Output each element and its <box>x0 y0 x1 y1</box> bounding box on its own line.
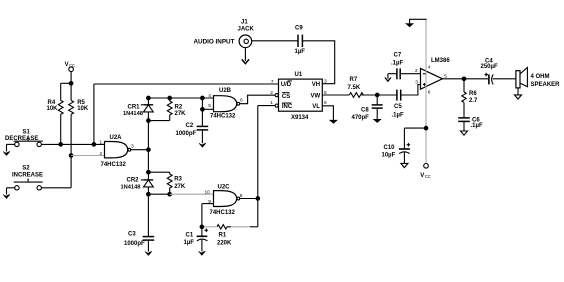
svg-text:SPEAKER: SPEAKER <box>531 82 561 88</box>
svg-text:4: 4 <box>428 64 431 70</box>
wire U2A output to node <box>131 148 151 152</box>
svg-text:CR2: CR2 <box>127 178 140 184</box>
svg-text:C2: C2 <box>186 123 194 129</box>
NAND gate U2A <box>100 135 135 168</box>
svg-text:S2: S2 <box>22 165 30 171</box>
ground (C2) <box>199 143 206 147</box>
svg-text:U2A: U2A <box>110 135 123 141</box>
svg-text:VL: VL <box>312 104 320 110</box>
Vcc symbol (left supply) <box>65 62 75 85</box>
svg-text:R6: R6 <box>469 91 477 97</box>
Vcc terminal (LM386 pin6 bottom) <box>420 164 430 180</box>
svg-text:7.5K: 7.5K <box>348 85 361 91</box>
capacitor C9 <box>295 25 306 55</box>
connector J1 jack <box>194 19 299 47</box>
ground (J1) <box>242 48 249 64</box>
svg-text:VH: VH <box>312 82 320 88</box>
ground (S2) <box>3 188 15 199</box>
svg-text:2: 2 <box>270 90 273 96</box>
capacitor C2 <box>176 123 209 143</box>
op-amp U3 LM386 <box>415 58 450 95</box>
wire S2 to R5/U2A pin2 node <box>41 154 72 188</box>
IC U1 X9134 <box>270 72 327 121</box>
NAND gate U2C <box>205 185 243 216</box>
svg-text:C7: C7 <box>394 53 402 59</box>
wire U1 VH to C9 <box>302 41 334 84</box>
wire LM386 output <box>442 77 488 81</box>
svg-text:C10: C10 <box>384 145 396 151</box>
svg-text:7: 7 <box>271 79 274 85</box>
ground (C10, open) <box>401 163 408 167</box>
svg-text:U1: U1 <box>295 72 303 78</box>
svg-text:10K: 10K <box>77 106 89 112</box>
svg-text:.1µF: .1µF <box>471 123 483 129</box>
capacitor C10 (electrolytic) <box>382 126 428 163</box>
node C2 / U2B pin5 branch <box>201 98 214 126</box>
svg-text:10µF: 10µF <box>382 152 396 158</box>
svg-text:6: 6 <box>428 89 431 95</box>
capacitor C8 <box>352 93 383 121</box>
NAND gate U2B <box>208 88 243 120</box>
svg-text:3: 3 <box>131 143 134 149</box>
switch S1 DECREASE <box>5 130 43 147</box>
svg-text:1: 1 <box>100 140 103 146</box>
svg-text:74HC132: 74HC132 <box>210 210 236 216</box>
svg-text:C8: C8 <box>361 108 369 114</box>
svg-text:1000pF: 1000pF <box>176 131 197 137</box>
resistor R6 <box>462 79 478 118</box>
svg-text:1N4148: 1N4148 <box>123 111 143 117</box>
svg-text:4 OHM: 4 OHM <box>531 74 550 80</box>
resistor R4 <box>47 83 64 144</box>
ground (speaker, open) <box>515 88 522 99</box>
svg-text:2: 2 <box>100 151 103 157</box>
svg-text:LM386: LM386 <box>431 58 450 64</box>
svg-text:470pF: 470pF <box>352 115 370 121</box>
svg-text:.1µF: .1µF <box>392 112 404 118</box>
wire U2B output to U1 CS <box>240 95 276 104</box>
svg-text:10: 10 <box>205 189 211 195</box>
svg-text:27K: 27K <box>174 184 186 190</box>
ground (C6, open) <box>461 131 468 135</box>
switch S2 INCREASE <box>12 165 43 190</box>
ground (S1) <box>3 144 15 155</box>
svg-text:JACK: JACK <box>238 26 255 32</box>
svg-text:C1: C1 <box>186 233 194 239</box>
ground (C7) <box>385 74 391 82</box>
svg-text:5: 5 <box>208 103 211 109</box>
svg-text:CC: CC <box>425 174 431 179</box>
capacitor C6 <box>458 117 483 131</box>
wire S1 to U2A pin1 <box>41 143 104 147</box>
ground arrow (LM386 pin4 top) <box>406 19 427 27</box>
capacitor C5 <box>392 90 404 119</box>
svg-text:R1: R1 <box>219 233 227 239</box>
capacitor C3 <box>124 232 154 252</box>
power rail LM386 pin4/pin6 (gray) <box>425 19 427 163</box>
svg-text:U2B: U2B <box>219 88 232 94</box>
resistor R1 <box>200 225 258 247</box>
capacitor C7 <box>388 53 421 80</box>
svg-text:1µF: 1µF <box>295 49 306 55</box>
svg-text:250µF: 250µF <box>481 64 498 70</box>
wire CR1 bottom to R2 bottom <box>147 119 170 123</box>
wire rail CR1/R2 tops to U2B pin4 <box>147 96 214 100</box>
svg-text:INC: INC <box>282 104 293 110</box>
resistor R3 <box>167 172 186 194</box>
wire Vcc node to R4 top <box>61 82 71 84</box>
svg-text:3: 3 <box>415 79 418 85</box>
svg-text:R3: R3 <box>174 177 182 183</box>
svg-text:R7: R7 <box>350 77 358 83</box>
svg-text:J1: J1 <box>241 19 248 25</box>
wire C5 to LM386 pin3 <box>401 85 421 95</box>
speaker LS1 4 OHM <box>516 68 560 89</box>
svg-text:1N4148: 1N4148 <box>121 184 141 190</box>
svg-text:74HC132: 74HC132 <box>101 162 127 168</box>
svg-text:V: V <box>65 62 69 68</box>
svg-text:1000pF: 1000pF <box>124 241 145 247</box>
wire U2C pin9 feed <box>202 204 214 227</box>
svg-text:6: 6 <box>240 98 243 104</box>
svg-text:10K: 10K <box>47 106 59 112</box>
resistor R7 <box>348 77 378 97</box>
capacitor C4 (electrolytic) <box>481 58 516 84</box>
svg-text:CC: CC <box>69 63 75 68</box>
svg-text:2.7: 2.7 <box>469 98 478 104</box>
svg-text:C5: C5 <box>394 104 402 110</box>
svg-text:S1: S1 <box>23 130 31 136</box>
svg-text:AUDIO INPUT: AUDIO INPUT <box>194 39 235 46</box>
svg-text:U/D: U/D <box>281 82 292 88</box>
svg-text:220K: 220K <box>217 241 232 247</box>
ground (C8) <box>374 119 381 122</box>
svg-text:.1µF: .1µF <box>391 61 403 67</box>
node CR2 bottom / U2C pin10 wire <box>147 192 214 196</box>
wire C8 node to C5 <box>377 94 397 96</box>
svg-text:2: 2 <box>415 68 418 74</box>
svg-text:VW: VW <box>311 94 321 100</box>
wire U2A pin2 (gray) <box>71 155 104 157</box>
node U/D rail to U1 pin7 <box>94 84 279 144</box>
capacitor C1 (electrolytic) <box>184 227 209 252</box>
resistor R2 <box>167 98 186 121</box>
resistor R5 <box>69 83 89 155</box>
svg-text:74HC132: 74HC132 <box>210 114 236 120</box>
svg-text:U2C: U2C <box>218 185 231 191</box>
svg-text:X9134: X9134 <box>291 115 309 121</box>
svg-text:DECREASE: DECREASE <box>5 136 38 142</box>
svg-text:CS: CS <box>282 94 290 100</box>
svg-text:C9: C9 <box>295 25 303 31</box>
svg-text:R2: R2 <box>175 104 183 110</box>
diode CR1 <box>123 98 153 121</box>
ground (C1) <box>199 251 206 255</box>
svg-text:4: 4 <box>208 93 211 99</box>
svg-text:C3: C3 <box>128 232 136 238</box>
svg-text:1: 1 <box>270 100 273 106</box>
svg-text:INCREASE: INCREASE <box>12 173 43 179</box>
wire CR2 top to R3 top <box>148 171 169 173</box>
svg-text:27K: 27K <box>175 111 187 117</box>
svg-text:1µF: 1µF <box>184 240 195 246</box>
ground (U1 VL) <box>322 106 337 124</box>
svg-text:CR1: CR1 <box>128 104 141 110</box>
ground (C3) <box>145 252 152 256</box>
wire U1 VW to R7 <box>322 94 349 96</box>
wire U2C output node and INC feed <box>240 106 276 227</box>
diode CR2 <box>121 121 154 237</box>
